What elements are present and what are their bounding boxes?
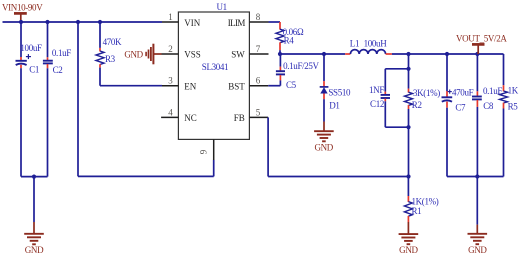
ground symbol at D1 — [314, 131, 334, 152]
svg-text:1K(1%): 1K(1%) — [412, 196, 439, 206]
value label L1 100uH — [350, 38, 387, 48]
pin 7 SW — [231, 44, 268, 60]
designator C8 — [483, 101, 494, 111]
wire output rail — [392, 53, 504, 55]
svg-text:D1: D1 — [329, 100, 339, 110]
wire to left ground — [33, 177, 35, 234]
svg-text:6: 6 — [256, 76, 261, 86]
svg-text:R2: R2 — [412, 100, 422, 110]
value label 0.06ohm — [283, 27, 304, 37]
designator R4 — [284, 36, 295, 46]
svg-text:1: 1 — [168, 12, 173, 22]
svg-text:9: 9 — [198, 149, 208, 154]
designator R5 — [508, 101, 519, 111]
designator R1 — [412, 206, 422, 216]
part number SL3041 — [202, 62, 228, 72]
svg-text:SL3041: SL3041 — [202, 62, 228, 72]
svg-text:470K: 470K — [103, 37, 122, 47]
designator R3 — [105, 54, 116, 64]
svg-text:SW: SW — [231, 50, 245, 60]
node junction bottom-right — [475, 174, 479, 178]
svg-text:GND: GND — [25, 245, 44, 255]
svg-text:VIN: VIN — [184, 18, 200, 28]
svg-text:0.1uF: 0.1uF — [52, 48, 71, 58]
svg-text:7: 7 — [256, 44, 261, 54]
resistor R1 — [404, 177, 412, 234]
designator C2 — [53, 65, 63, 75]
value label 1K — [508, 85, 519, 95]
node junction SW/D1 — [322, 52, 326, 56]
capacitor C5 — [268, 54, 285, 86]
resistor R2 — [405, 54, 413, 177]
svg-text:C7: C7 — [455, 102, 466, 112]
value label 470uF — [452, 87, 474, 97]
wire to right ground — [476, 177, 478, 234]
pin 5 FB — [234, 107, 268, 123]
svg-text:R3: R3 — [105, 54, 116, 64]
pin 4 NC — [161, 107, 197, 123]
capacitor C2 — [43, 22, 53, 177]
svg-text:8: 8 — [256, 12, 261, 22]
node junction pin9 branch — [76, 20, 80, 24]
wire bottom-right rail — [447, 176, 504, 178]
svg-text:0.1uF/25V: 0.1uF/25V — [283, 61, 319, 71]
inductor L1 — [345, 50, 392, 54]
svg-text:L1: L1 — [350, 38, 359, 48]
wire SW rail — [280, 53, 345, 55]
svg-text:GND: GND — [124, 49, 143, 59]
svg-text:3: 3 — [168, 76, 173, 86]
svg-text:R4: R4 — [284, 36, 295, 46]
value label 1NF — [369, 85, 384, 95]
svg-text:GND: GND — [314, 143, 333, 153]
svg-text:4: 4 — [168, 107, 173, 117]
designator C5 — [286, 80, 297, 90]
svg-text:C2: C2 — [53, 65, 63, 75]
svg-text:R1: R1 — [412, 206, 422, 216]
value label 470K — [103, 37, 122, 47]
value label 0.1uF — [52, 48, 71, 58]
svg-text:GND: GND — [468, 245, 487, 255]
svg-text:C1: C1 — [29, 65, 39, 75]
node junction bottom-left — [32, 175, 36, 179]
wire C1-C2 bottom rail — [21, 176, 48, 178]
node junction C12 bottom — [406, 125, 410, 129]
wire FB to R1/R2 — [268, 117, 408, 176]
node junction C7 — [445, 52, 449, 56]
capacitor C7 — [442, 54, 453, 177]
power symbol VIN bar — [14, 13, 27, 22]
svg-text:ILIM: ILIM — [228, 18, 246, 28]
ground symbol at R1 — [399, 234, 419, 255]
svg-text:VSS: VSS — [184, 50, 201, 60]
node junction C2 — [45, 20, 49, 24]
node junction C12 top — [406, 67, 410, 71]
svg-text:1NF: 1NF — [369, 85, 384, 95]
pin 3 EN — [162, 76, 197, 92]
svg-text:5: 5 — [256, 107, 261, 117]
value label 0.1uF/25V — [283, 61, 319, 71]
designator C7 — [455, 102, 466, 112]
value label 3K(1%) — [413, 88, 440, 98]
designator R2 — [412, 100, 422, 110]
node junction FB/R1/R2 — [406, 174, 410, 178]
svg-text:3K(1%): 3K(1%) — [413, 88, 440, 98]
svg-text:U1: U1 — [217, 2, 227, 12]
wire top VIN rail — [3, 21, 163, 23]
svg-text:FB: FB — [234, 113, 245, 123]
node junction VIN/C1 — [19, 20, 23, 24]
capacitor C12 — [381, 69, 409, 127]
designator C1 — [29, 65, 39, 75]
svg-text:R5: R5 — [508, 101, 519, 111]
node junction R3 — [98, 20, 102, 24]
value label SS510 — [328, 88, 351, 98]
svg-text:VOUT_5V/2A: VOUT_5V/2A — [456, 34, 507, 44]
svg-text:EN: EN — [184, 81, 196, 91]
pin 1 VIN — [162, 12, 201, 28]
svg-text:C12: C12 — [370, 99, 384, 109]
svg-text:100uF: 100uF — [20, 43, 42, 53]
node junction VOUT/C8 — [475, 52, 479, 56]
net label VOUT_5V/2A — [456, 34, 507, 44]
pin 2 VSS — [162, 44, 201, 60]
power symbol VOUT bar — [472, 44, 485, 54]
svg-text:2: 2 — [168, 44, 173, 54]
wire R3 to EN — [100, 85, 162, 87]
svg-text:VIN10-90V: VIN10-90V — [2, 3, 43, 13]
svg-text:100uH: 100uH — [364, 38, 388, 48]
svg-text:1K: 1K — [508, 85, 519, 95]
svg-text:C5: C5 — [286, 80, 297, 90]
svg-text:470uF: 470uF — [452, 87, 474, 97]
ground symbol left — [24, 234, 44, 255]
designator C12 — [370, 99, 384, 109]
net label VIN10-90V — [2, 3, 43, 13]
node junction SW/R4/C5 — [278, 52, 282, 56]
svg-text:BST: BST — [228, 81, 245, 91]
value label 0.1uF — [483, 86, 502, 96]
pin 6 BST — [228, 76, 268, 92]
svg-text:SS510: SS510 — [328, 88, 351, 98]
svg-text:NC: NC — [184, 113, 197, 123]
designator D1 — [329, 100, 339, 110]
resistor R3 — [96, 22, 104, 86]
capacitor C8 — [472, 54, 482, 177]
pin 8 ILIM — [228, 12, 269, 28]
resistor R5 — [500, 54, 508, 177]
diode D1 SS510 — [320, 54, 329, 131]
capacitor C1 — [16, 22, 32, 177]
value label 100uF — [20, 43, 42, 53]
pin 9 pad — [198, 139, 213, 160]
svg-text:C8: C8 — [483, 101, 494, 111]
svg-text:GND: GND — [399, 245, 418, 255]
ground symbol right — [468, 234, 488, 255]
value label 1K(1%) — [412, 196, 439, 206]
resistor R4 — [269, 22, 285, 54]
designator U1 — [217, 2, 227, 12]
node junction R2 — [406, 52, 410, 56]
ground symbol at VSS pin — [124, 44, 161, 65]
op-amp U1 SL3041 body — [178, 12, 249, 139]
wire VIN to exposed pad (x=78 column) — [78, 22, 214, 176]
